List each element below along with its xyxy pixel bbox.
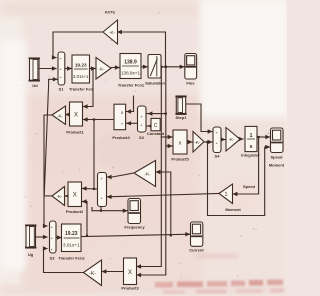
svg-text:-K-: -K- — [57, 113, 64, 118]
svg-text:Product4: Product4 — [112, 135, 130, 140]
arrowhead into Product2 top — [82, 186, 87, 190]
wire S3 to Transfer Fcn2 — [56, 237, 61, 239]
wire flux tap down to Product3 top input — [137, 67, 162, 267]
gain KVTs — [103, 20, 118, 44]
wire tap to S2 top input — [147, 113, 166, 115]
wire left tick — [91, 208, 93, 211]
wire junction drop from Product4 line down to S5 output line — [93, 120, 95, 190]
product1 — [70, 102, 83, 126]
wire stub into Product4 top input — [126, 96, 134, 112]
junction speed line — [258, 136, 260, 138]
scope Frequency — [128, 199, 141, 224]
svg-text:-K-: -K- — [144, 172, 151, 178]
svg-text:Integrator: Integrator — [241, 153, 260, 158]
arrowhead into Transfer Fcn2 — [57, 235, 62, 239]
sum S3 — [50, 221, 57, 253]
wire Gain5 output up to S1 bottom input — [44, 79, 57, 196]
arrowhead into Product4 top — [126, 109, 131, 113]
svg-text:X: X — [74, 112, 78, 118]
arrowhead into Transfer Fcn — [67, 66, 72, 70]
wire flux line tap up to KVTs input — [118, 32, 166, 67]
junction on flux line 1 — [160, 66, 162, 68]
sum S4 — [213, 127, 221, 153]
product4 — [114, 104, 126, 130]
svg-text:C: C — [154, 123, 158, 129]
svg-text:-K-: -K- — [98, 66, 105, 71]
central pink wash — [22, 14, 202, 99]
wire Transfer Fcn to Gain1 — [90, 68, 96, 70]
wire Product2 bottom input riser from current line — [82, 202, 87, 236]
wire S1 to Transfer Fcn — [65, 68, 72, 70]
scope Flux — [185, 54, 197, 80]
integrator — [245, 126, 257, 151]
wire Transfer Fcn2 output to Current scope — [81, 234, 190, 236]
junction frequency line — [100, 210, 102, 212]
arrowhead into KVTs — [117, 30, 122, 34]
wire Ug to S3 — [35, 236, 47, 238]
inport Ud — [30, 58, 40, 81]
step1 block — [176, 96, 185, 114]
wire current tap up to big gain input — [156, 172, 171, 236]
gain G3 — [193, 132, 204, 153]
arrowhead into Integrator — [239, 137, 244, 141]
svg-text:Product5: Product5 — [171, 157, 189, 162]
gain G4 — [226, 128, 240, 152]
svg-text:Product1: Product1 — [66, 130, 84, 135]
wire Step1 output down to S4 top input — [186, 104, 213, 132]
product2 — [68, 182, 82, 207]
big gain — [134, 161, 156, 187]
wire Moment gain output to S5 bottom input — [107, 194, 219, 197]
wire Product2 output to Gain5 — [65, 195, 68, 197]
bleed-through pink text at bottom — [40, 253, 284, 294]
arrowhead into S1 middle — [52, 66, 57, 70]
svg-text:s: s — [250, 144, 253, 150]
gain G5 — [52, 187, 65, 206]
wire Ud to S1 — [39, 68, 56, 70]
wire Product1 output to Gain2 — [66, 114, 70, 116]
arrowhead into Product5 bottom — [168, 144, 173, 148]
wire Gain1 to Transfer Fcn1 — [111, 67, 119, 69]
svg-text:X: X — [73, 193, 77, 199]
gain G2 — [52, 106, 66, 125]
arrowhead into Product1 bottom — [83, 117, 88, 121]
svg-text:Product2: Product2 — [66, 209, 84, 214]
svg-text:Speed: Speed — [270, 155, 283, 160]
arrowhead into S2 top — [148, 111, 153, 115]
svg-text:Product3: Product3 — [121, 286, 139, 291]
wire branch to Product5 bottom input — [166, 145, 172, 147]
svg-text:S3: S3 — [50, 256, 56, 261]
saturation curve — [156, 57, 158, 77]
arrowhead into S4 top — [208, 129, 213, 133]
scope Speed Moment — [271, 128, 284, 153]
wire Transfer Fcn1 to Saturation — [141, 66, 147, 68]
junction flux line to KVTs riser — [92, 68, 94, 70]
transfer fcn2 block — [62, 224, 82, 252]
wire Gain6 output up to S3 bottom input — [44, 249, 84, 273]
wire KVTs feedback output to S1 top input — [53, 32, 103, 58]
arrowhead into S5 bottom — [107, 195, 112, 199]
svg-text:Speed: Speed — [243, 184, 256, 189]
wire Saturation to Flux scope — [161, 66, 185, 68]
constant block — [151, 118, 160, 130]
wire Product5 output to Gain3 — [187, 141, 192, 143]
junction on flux line 2 — [165, 66, 167, 68]
arrowhead into Product3 top — [136, 264, 141, 268]
svg-text:Ug: Ug — [28, 252, 34, 257]
wire tap down to Product1 top input — [84, 69, 94, 107]
wire S5 bottom stub — [100, 207, 102, 211]
arrowhead into S3 middle — [43, 235, 48, 239]
svg-text:Transfer Fcn1: Transfer Fcn1 — [118, 83, 145, 88]
svg-text:1: 1 — [225, 192, 228, 198]
arrowhead into Product3 bottom — [136, 273, 141, 277]
saturation block — [148, 55, 161, 79]
svg-text:KVTs: KVTs — [105, 10, 116, 15]
svg-text:-K-: -K- — [56, 194, 63, 199]
scan speckle noise — [20, 12, 269, 278]
arrowhead into S4 middle — [208, 140, 213, 144]
wire torque tap loop to scope bottom input — [208, 142, 270, 216]
arrowhead into S1 bottom — [53, 77, 58, 81]
arrowhead into Frequency — [123, 209, 128, 213]
sum S1 — [58, 52, 65, 85]
arrowhead into scope bottom — [265, 145, 270, 149]
arrowhead into Product1 top — [83, 104, 88, 108]
arrowhead into Moment gain — [233, 192, 238, 196]
product3 — [124, 258, 137, 285]
svg-text:Transfer Fcn: Transfer Fcn — [69, 87, 94, 92]
wire S4 output to Gain4 — [221, 139, 225, 141]
arrowhead into Product5 top — [168, 135, 173, 139]
arrowhead into Product2 bottom — [82, 199, 87, 203]
wire S2 output to Product4 bottom input — [126, 122, 138, 124]
junction S5 output line — [93, 188, 95, 190]
arrowhead into S3 bottom — [43, 246, 48, 250]
arrowhead into Flux — [180, 65, 185, 69]
wire speed tap down to Moment gain — [233, 137, 259, 194]
svg-text:Transfer Fcn2: Transfer Fcn2 — [58, 256, 85, 261]
svg-text:3.01s+1: 3.01s+1 — [73, 74, 89, 79]
arrowhead into S1 top — [52, 55, 57, 59]
svg-text:Moment: Moment — [269, 163, 285, 168]
svg-text:138.9s+1: 138.9s+1 — [121, 71, 140, 76]
svg-text:X: X — [128, 270, 132, 276]
svg-text:-K-: -K- — [228, 137, 235, 142]
wire Constant output to S2 bottom input — [147, 125, 151, 127]
svg-text:Ud: Ud — [32, 83, 38, 88]
wire flux tap down to Product3 bottom input — [137, 67, 166, 275]
arrowhead into S2 bottom — [148, 124, 153, 128]
inport Ug — [26, 225, 36, 248]
wire big gain output to S5 top input — [107, 173, 134, 177]
arrowhead into Current — [185, 232, 190, 236]
svg-text:19.23: 19.23 — [75, 62, 87, 67]
arrowhead into Gain5 — [65, 194, 70, 198]
sum S5 — [98, 173, 107, 207]
junction current line — [170, 234, 172, 236]
svg-text:-K-: -K- — [194, 140, 201, 145]
wire S5 output to Product2 top input — [82, 188, 98, 191]
svg-text:Constant: Constant — [147, 131, 165, 136]
arrowhead into Gain4 — [221, 137, 226, 141]
wire branch to Product5 top input — [161, 136, 172, 138]
arrowhead into scope top — [265, 135, 270, 139]
wire Gain4 output to Integrator — [240, 138, 243, 140]
arrowhead into Saturation — [143, 65, 148, 69]
svg-text:3.01s+1: 3.01s+1 — [63, 243, 80, 248]
junction torque line — [206, 141, 208, 143]
sum S2 — [138, 106, 147, 132]
gain Moment 1 — [219, 184, 233, 204]
svg-text:Current: Current — [189, 248, 204, 253]
svg-text:x: x — [179, 141, 182, 147]
junction S2 tap — [165, 113, 167, 115]
svg-text:138.9: 138.9 — [124, 60, 137, 66]
svg-text:1: 1 — [250, 133, 253, 139]
svg-text:Moment: Moment — [225, 207, 241, 212]
arrowhead into Gain6 — [102, 269, 107, 273]
arrowhead into Gain1 — [91, 66, 96, 70]
svg-text:Flux: Flux — [186, 81, 195, 86]
svg-text:Saturation: Saturation — [145, 81, 165, 86]
scope Current — [191, 222, 203, 246]
wire Integrator output to scope — [256, 136, 270, 138]
svg-text:Step1: Step1 — [176, 115, 188, 120]
wire Gain2 output down to S3 top input — [44, 115, 52, 226]
junction Product4 line — [93, 118, 95, 120]
wire Gain3 output to S4 — [204, 141, 212, 143]
svg-text:S4: S4 — [215, 154, 221, 159]
product5 — [173, 130, 187, 154]
arrowhead into Transfer Fcn1 — [115, 65, 120, 69]
junction current line 2 — [86, 235, 88, 237]
arrowhead into Gain3 — [188, 140, 193, 144]
gain G6 — [84, 260, 102, 286]
arrowhead into S5 top — [107, 175, 112, 179]
arrowhead into Product4 bottom — [126, 121, 131, 125]
transfer fcn block — [72, 55, 90, 83]
wire S5 bottom output to Frequency scope — [92, 210, 128, 212]
svg-text:S2: S2 — [139, 135, 145, 140]
svg-text:-K-: -K- — [89, 271, 96, 277]
arrowhead into big gain — [156, 170, 161, 174]
wire Product3 output to Gain6 — [102, 271, 124, 273]
gain G1 — [96, 58, 111, 80]
transfer fcn1 block — [120, 54, 141, 79]
arrowhead into S3 top — [43, 224, 48, 228]
svg-text:S1: S1 — [59, 87, 65, 92]
svg-text:-K-: -K- — [109, 30, 116, 35]
svg-text:Frequency: Frequency — [124, 225, 145, 230]
svg-text:19.23: 19.23 — [65, 231, 78, 237]
arrowhead into Gain2 — [65, 112, 70, 116]
wire Product4 output to Product1 bottom input — [84, 119, 115, 121]
